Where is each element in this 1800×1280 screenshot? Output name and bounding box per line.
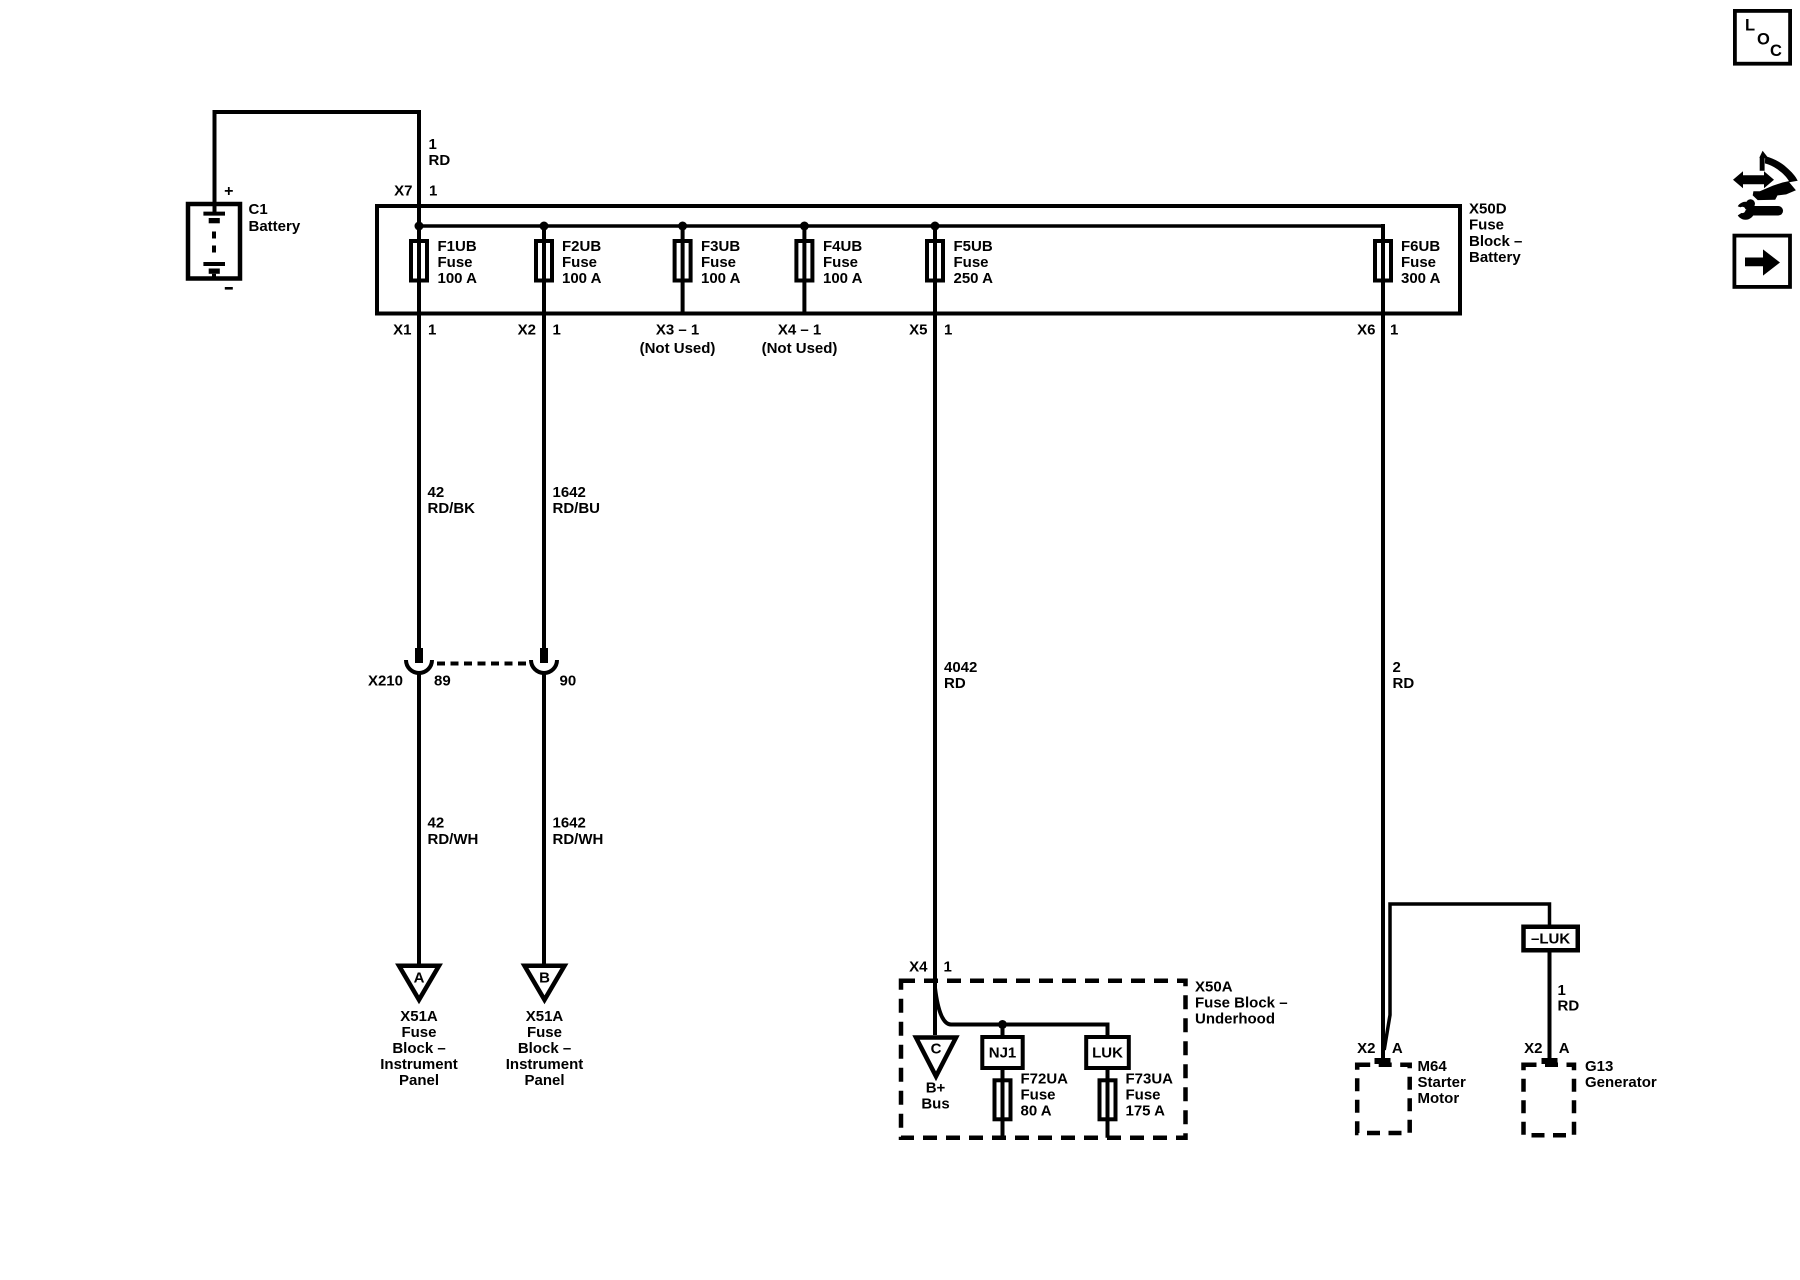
svg-text:A: A [414,970,425,987]
svg-text:B: B [539,970,550,987]
svg-text:Panel: Panel [399,1072,439,1089]
svg-text:RD: RD [1393,675,1415,692]
svg-text:X7: X7 [394,183,412,200]
svg-text:A: A [1559,1040,1570,1057]
svg-text:Motor: Motor [1418,1090,1460,1107]
svg-text:RD: RD [944,675,966,692]
svg-text:X2: X2 [1524,1040,1542,1057]
svg-text:100 A: 100 A [701,270,741,287]
svg-text:X4 – 1: X4 – 1 [778,322,821,339]
svg-text:Fuse: Fuse [1021,1087,1056,1104]
svg-text:G13: G13 [1585,1058,1613,1075]
svg-text:F3UB: F3UB [701,238,740,255]
svg-text:X4: X4 [909,959,928,976]
svg-text:4042: 4042 [944,659,977,676]
svg-text:F72UA: F72UA [1021,1071,1069,1088]
svg-text:250 A: 250 A [954,270,994,287]
svg-text:–LUK: –LUK [1531,931,1570,948]
svg-text:Instrument: Instrument [506,1056,584,1073]
svg-text:X50A: X50A [1195,979,1233,996]
svg-text:1: 1 [944,322,952,339]
svg-text:Fuse: Fuse [701,254,736,271]
svg-text:Fuse Block –: Fuse Block – [1195,995,1288,1012]
svg-text:90: 90 [560,673,577,690]
svg-text:X51A: X51A [400,1008,438,1025]
svg-text:B+: B+ [926,1079,946,1096]
svg-text:X51A: X51A [526,1008,564,1025]
svg-text:1642: 1642 [553,815,586,832]
svg-text:Block –: Block – [518,1040,571,1057]
svg-text:175 A: 175 A [1126,1103,1166,1120]
svg-text:RD: RD [429,152,451,169]
svg-text:Fuse: Fuse [823,254,858,271]
svg-text:F6UB: F6UB [1401,238,1440,255]
svg-text:Block –: Block – [392,1040,445,1057]
svg-text:+: + [224,183,233,200]
svg-text:RD/BK: RD/BK [428,500,476,517]
svg-text:Panel: Panel [524,1072,564,1089]
svg-text:Underhood: Underhood [1195,1011,1275,1028]
svg-text:LUK: LUK [1092,1045,1123,1062]
svg-text:Fuse: Fuse [1126,1087,1161,1104]
svg-text:F4UB: F4UB [823,238,862,255]
svg-text:Fuse: Fuse [562,254,597,271]
svg-text:C: C [1770,42,1782,60]
svg-text:Fuse: Fuse [401,1024,436,1041]
svg-text:100 A: 100 A [823,270,863,287]
svg-text:Fuse: Fuse [1469,217,1504,234]
svg-text:89: 89 [434,673,451,690]
svg-text:42: 42 [428,484,445,501]
svg-text:X1: X1 [393,322,411,339]
svg-text:Starter: Starter [1418,1074,1467,1091]
svg-text:F2UB: F2UB [562,238,601,255]
svg-text:X3 – 1: X3 – 1 [656,322,699,339]
svg-text:X50D: X50D [1469,201,1507,218]
svg-text:Block –: Block – [1469,233,1522,250]
svg-text:Fuse: Fuse [1401,254,1436,271]
svg-text:Generator: Generator [1585,1074,1657,1091]
svg-text:X2: X2 [518,322,536,339]
svg-text:Fuse: Fuse [954,254,989,271]
svg-text:F73UA: F73UA [1126,1071,1174,1088]
svg-text:100 A: 100 A [562,270,602,287]
svg-text:Bus: Bus [921,1095,949,1112]
svg-text:100 A: 100 A [438,270,478,287]
svg-text:L: L [1745,17,1755,35]
svg-text:RD/WH: RD/WH [553,831,604,848]
svg-text:M64: M64 [1418,1058,1448,1075]
svg-text:1: 1 [553,322,561,339]
svg-text:1: 1 [428,322,436,339]
svg-text:(Not Used): (Not Used) [762,340,838,357]
svg-text:Fuse: Fuse [527,1024,562,1041]
svg-text:2: 2 [1393,659,1401,676]
svg-text:X2: X2 [1357,1040,1375,1057]
svg-text:RD/WH: RD/WH [428,831,479,848]
svg-text:300 A: 300 A [1401,270,1441,287]
svg-text:1: 1 [944,959,952,976]
svg-text:O: O [1757,31,1770,49]
svg-text:Battery: Battery [1469,249,1521,266]
svg-text:1: 1 [429,136,437,153]
svg-text:RD/BU: RD/BU [553,500,601,517]
svg-text:1: 1 [429,183,437,200]
svg-text:X210: X210 [368,673,403,690]
svg-text:Instrument: Instrument [380,1056,458,1073]
svg-text:X5: X5 [909,322,927,339]
svg-text:1642: 1642 [553,484,586,501]
svg-text:F1UB: F1UB [438,238,477,255]
svg-text:NJ1: NJ1 [989,1045,1017,1062]
svg-text:1: 1 [1558,982,1566,999]
svg-text:(Not Used): (Not Used) [640,340,716,357]
svg-text:C: C [931,1041,942,1058]
svg-text:42: 42 [428,815,445,832]
svg-text:80 A: 80 A [1021,1103,1052,1120]
svg-text:F5UB: F5UB [954,238,993,255]
svg-text:A: A [1392,1040,1403,1057]
svg-text:1: 1 [1390,322,1398,339]
svg-text:Battery: Battery [249,218,301,235]
svg-text:RD: RD [1558,997,1580,1014]
svg-text:X6: X6 [1357,322,1375,339]
svg-text:Fuse: Fuse [438,254,473,271]
svg-text:C1: C1 [249,201,268,218]
